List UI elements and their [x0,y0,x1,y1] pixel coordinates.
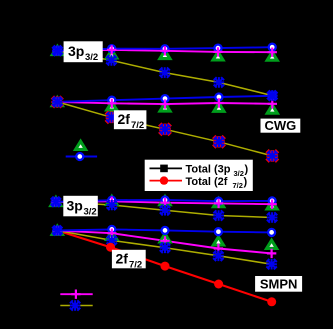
legend box: Total lines [145,160,253,191]
svg-text:Total (3p: Total (3p [186,164,231,176]
node: SMPN 3p3/2 open circle markers [52,197,275,206]
svg-text:): ) [245,164,249,176]
label box 3p3/2 (SMPN) [63,196,98,218]
label box 2f7/2 (CWG) [114,110,146,131]
label box SMPN [255,276,302,292]
node: SMPN 3p3/2 green triangle markers [51,196,277,209]
svg-text:3/2: 3/2 [234,169,244,178]
svg-text:SMPN: SMPN [260,277,298,292]
wire: SMPN total 2f7/2 red line [57,231,271,302]
svg-text:): ) [244,176,248,188]
svg-text:7/2: 7/2 [233,181,243,190]
wire: SMPN 2f7/2 blue line [57,229,271,232]
node: CWG 2f7/2 magenta plus markers [53,97,277,109]
label box 3p3/2 (CWG) [64,41,103,63]
wire: CWG legend blue line with circle [66,153,97,160]
svg-text:3p: 3p [68,43,84,59]
svg-text:2f: 2f [118,111,131,127]
wire: CWG 2f7/2 dark-yellow occupancy line [57,102,272,156]
node: CWG legend green triangle [76,141,86,149]
wire: SMPN legend dark-yellow line with snowflake [60,300,92,311]
wire: CWG 2f7/2 magenta line [57,102,272,104]
node: SMPN 2f7/2 blue snowflake markers [52,225,277,269]
wire: CWG 3p3/2 magenta line [57,50,272,52]
svg-text:3/2: 3/2 [84,207,97,218]
wire: CWG 3p3/2 blue line [57,47,272,50]
node: CWG col1 degenerate snowflake cap [52,45,63,56]
svg-text:3/2: 3/2 [85,52,98,63]
svg-text:Total (2f: Total (2f [186,176,228,188]
node: SMPN 2f7/2 green triangle markers [52,226,276,248]
label box 2f7/2 (SMPN) [112,250,146,271]
wire: SMPN 3p3/2 magenta line [56,201,272,204]
node: SMPN 2f7/2 magenta plus markers [53,226,277,258]
wire: SMPN legend magenta line with plus [60,290,92,299]
svg-text:3p: 3p [67,198,83,214]
node: CWG 2f7/2 red-star + blue-snowflake markers [51,96,278,162]
node: SMPN total 2f7/2 red dot markers [106,243,276,307]
svg-text:7/2: 7/2 [129,260,142,271]
wire: SMPN 3p3/2 dark-yellow occupancy line [56,202,272,218]
wire: CWG 3p3/2 dark-yellow occupancy line [57,51,272,96]
node: SMPN 3p3/2 blue snowflake markers [51,197,278,223]
node: CWG 2f7/2 green triangle markers [52,98,277,114]
node: CWG 3p3/2 magenta plus markers [53,45,277,57]
svg-text:2f: 2f [116,251,129,267]
node: CWG 3p3/2 open circle markers [54,44,276,54]
label box CWG [261,118,301,133]
wire: SMPN 2f7/2 magenta line [57,231,271,254]
node: CWG 3p3/2 col5 snowflake over 2f7/2 circle [267,90,278,101]
wire: SMPN 2f7/2 dark-yellow occupancy line [57,231,271,265]
node: CWG 3p3/2 green triangle markers [52,47,277,61]
wire: CWG 2f7/2 blue line [57,96,272,102]
node: CWG 2f7/2 open circle markers [54,92,276,105]
wire: SMPN 3p3/2 blue line [56,200,272,202]
node: SMPN 2f7/2 open circle markers [54,226,275,236]
node: SMPN 3p3/2 magenta plus markers [51,197,277,209]
node: CWG 3p3/2 blue snowflake markers [52,45,278,100]
svg-text:7/2: 7/2 [131,120,144,131]
svg-text:CWG: CWG [265,118,297,133]
